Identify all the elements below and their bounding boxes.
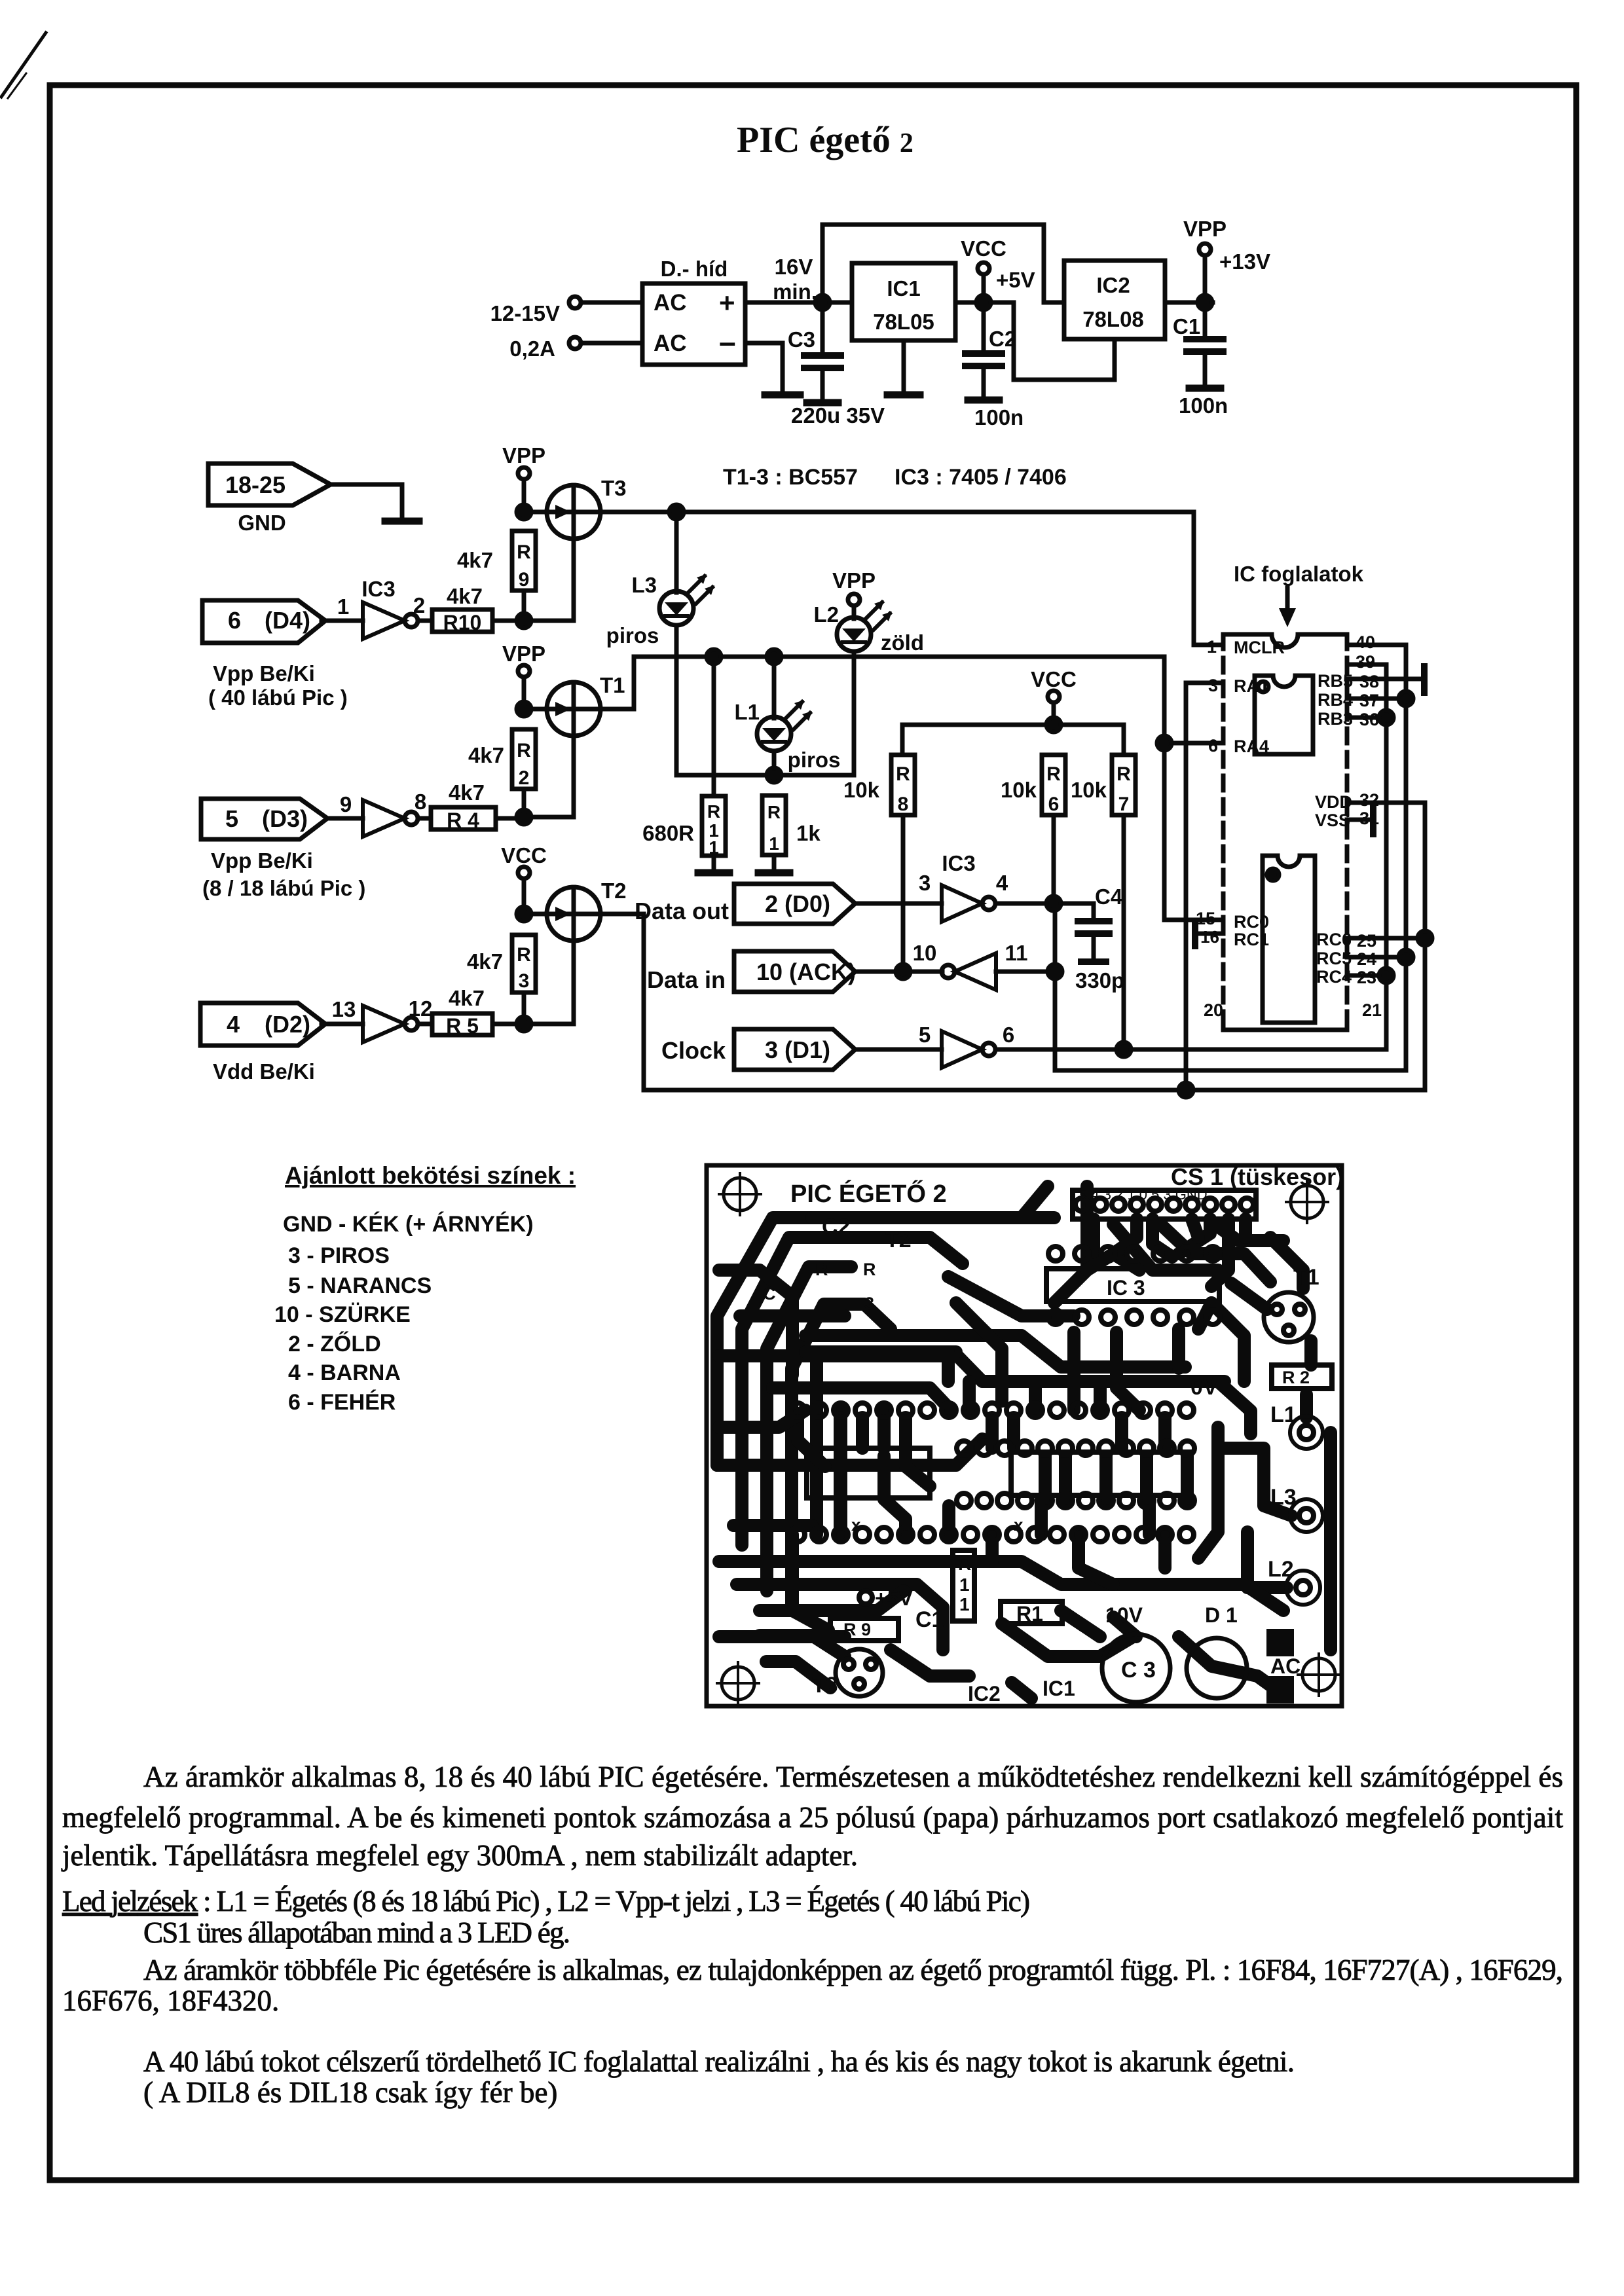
trace extra 28 (1029, 1381, 1042, 1410)
svg-text:36: 36 (1359, 710, 1379, 729)
inverter IC3 9-8 (363, 800, 405, 837)
svg-text:megfelelő programmal. A be és: megfelelő programmal. A be és kimeneti p… (62, 1801, 1563, 1834)
svg-text:10 (ACK): 10 (ACK) (756, 958, 856, 985)
wire pin36 RB3 (1347, 716, 1386, 720)
svg-text:25: 25 (1357, 931, 1376, 951)
trace dens 17 (1218, 1381, 1251, 1434)
svg-text:2 - ZŐLD: 2 - ZŐLD (288, 1332, 381, 1357)
svg-text:RA4: RA4 (1234, 737, 1269, 756)
svg-text:L3: L3 (1270, 1485, 1297, 1510)
RC1 terminator bar (1192, 922, 1198, 946)
svg-text:AC: AC (654, 290, 687, 316)
IC3 body (1046, 1269, 1219, 1302)
svg-text:VCC: VCC (501, 843, 547, 867)
wire RC4 pin23 (1347, 974, 1386, 978)
resistor R8 (891, 755, 915, 815)
trace bottom right (1179, 1637, 1274, 1688)
svg-text:IC3: IC3 (361, 577, 395, 601)
svg-text:32: 32 (1359, 790, 1379, 810)
svg-text:C1: C1 (1173, 314, 1200, 338)
trace extra 16 (1087, 1254, 1139, 1270)
svg-text:RB3: RB3 (1318, 709, 1353, 729)
svg-text:Vpp Be/Ki: Vpp Be/Ki (211, 848, 313, 873)
R11 footprint vertical (953, 1550, 974, 1621)
mounting crosshair top-left (719, 1173, 761, 1215)
node VCC rail junction (1046, 718, 1061, 732)
svg-text:13: 13 (332, 997, 356, 1021)
svg-text:(D4): (D4) (265, 607, 310, 634)
svg-text:Data out: Data out (635, 898, 729, 924)
LED L1 footprint (1290, 1416, 1323, 1449)
svg-text:Data in: Data in (647, 966, 726, 993)
IC2 78L08 box (1064, 261, 1165, 339)
svg-text:3: 3 (1208, 676, 1218, 695)
svg-text:R: R (1116, 763, 1131, 785)
connector Clock 3 (D1) (734, 1029, 855, 1070)
wire - output down (745, 343, 783, 393)
svg-text:8: 8 (415, 790, 426, 814)
wire RA1 column down to Vdd bus (1184, 683, 1189, 1090)
wire pin39 (1347, 663, 1386, 667)
resistor R4 (431, 807, 496, 829)
svg-text:–: – (719, 325, 736, 359)
28-pin pin1 dot (1267, 869, 1279, 881)
svg-text:( A DIL8 és DIL18 csak így fér: ( A DIL8 és DIL18 csak így fér be) (143, 2076, 557, 2109)
pcb labels (763, 1163, 1344, 1705)
wire IC2 out (1165, 301, 1213, 305)
trace extra 17 (956, 1303, 1002, 1401)
svg-text:8: 8 (898, 793, 909, 815)
node C3 junction (815, 295, 830, 310)
dil8 outline (807, 1448, 930, 1498)
trace extra 14 (1099, 1456, 1113, 1501)
svg-text:11: 11 (1005, 941, 1028, 965)
capacitor C2 (982, 309, 986, 352)
trace extra 9 (1158, 1535, 1172, 1568)
wire base T1 (524, 815, 574, 820)
trace extra 8 (1079, 1535, 1113, 1584)
trace dens 13 (1140, 1456, 1153, 1501)
svg-text:RC5: RC5 (1316, 949, 1352, 968)
VCC terminal (978, 263, 989, 274)
trace left bus 1 (717, 1186, 1048, 1465)
svg-text:RB5: RB5 (1318, 671, 1353, 691)
trace right edge down (1324, 1432, 1337, 1650)
svg-text:R: R (815, 1260, 828, 1279)
wire pin40 (1347, 643, 1406, 647)
svg-text:12-15V: 12-15V (490, 301, 560, 325)
svg-text:15: 15 (1196, 909, 1215, 928)
wire IC1 out (955, 301, 1014, 305)
trace right T1 1 (1231, 1283, 1267, 1309)
trace extra 4 (856, 1417, 869, 1448)
node R3/R5 junction (517, 1017, 531, 1031)
wire VDD bus vertical (1423, 803, 1428, 1090)
svg-text:Clock: Clock (661, 1037, 726, 1064)
mounting crosshair bottom-left (717, 1662, 759, 1704)
wire step to IC2 gnd pin (1014, 302, 1115, 380)
svg-text:4k7: 4k7 (447, 584, 483, 608)
svg-text:piros: piros (788, 748, 841, 772)
capacitor C1 (1203, 309, 1208, 337)
node T1 emitter junction (517, 702, 531, 716)
svg-text:R: R (707, 801, 720, 822)
trace bottom long (792, 1535, 828, 1630)
40-pin socket outline (1223, 634, 1347, 647)
svg-text:6: 6 (228, 607, 241, 634)
trace extra 11 (1158, 1417, 1172, 1448)
connector Data out 2 (D0) (734, 884, 855, 924)
svg-text:5: 5 (919, 1023, 931, 1047)
svg-text:7: 7 (1118, 793, 1130, 815)
node VPP out junction (1198, 295, 1212, 310)
svg-text:IC3: IC3 (942, 851, 975, 875)
node T2 emitter junction (517, 907, 531, 921)
trace extra 6 (942, 1506, 955, 1535)
svg-text:D.- híd: D.- híd (661, 257, 728, 281)
LED bottom rail (676, 773, 854, 778)
trace extra 22 (719, 1270, 792, 1375)
trace extra 15 (1211, 1303, 1244, 1381)
svg-text:9: 9 (519, 569, 530, 591)
svg-text:4k7: 4k7 (449, 780, 485, 805)
+5V pad (859, 1591, 872, 1604)
socket pad row C (957, 1493, 1194, 1508)
trace header loop (1054, 1186, 1087, 1303)
svg-text:L1: L1 (734, 700, 760, 724)
trace bottom bus 2 (737, 1584, 943, 1650)
IC foglalatok arrow (1285, 588, 1290, 618)
trace dens 11 (986, 1417, 999, 1448)
svg-text:10k: 10k (1001, 778, 1037, 802)
svg-text:R1: R1 (1016, 1602, 1043, 1626)
trace socket mid vertical 3 (1035, 1499, 1048, 1535)
ground bar minus (765, 392, 800, 399)
trace bottom bus 1 (719, 1561, 1283, 1611)
node R2/R4 junction (517, 810, 531, 824)
svg-text:(D3): (D3) (262, 805, 308, 832)
trace right T1 2 (1304, 1341, 1318, 1365)
svg-text:16: 16 (1200, 927, 1219, 947)
trace mid horiz 0V (719, 1356, 1225, 1381)
18-pin pin1 bubble (1258, 682, 1268, 692)
resistor R7 (1112, 755, 1135, 815)
transistor T3 footprint (836, 1649, 883, 1696)
svg-text:C4: C4 (1095, 884, 1123, 909)
svg-text:L2: L2 (1268, 1557, 1294, 1582)
svg-text:0,2A: 0,2A (509, 337, 555, 361)
trace mid cross (963, 1381, 976, 1410)
wire + output to IC1 (745, 301, 852, 305)
node R8 data-in junction (896, 964, 910, 979)
trace top header diag 2 (1159, 1223, 1270, 1282)
mounting crosshair bottom-right (1298, 1654, 1340, 1696)
data vertical to socket (1055, 645, 1406, 1070)
wire MCLR pin1 (1194, 512, 1223, 645)
svg-text:18-25: 18-25 (225, 471, 286, 498)
node R7 clock junction (1116, 1042, 1131, 1057)
node R9/R10 junction (517, 613, 531, 628)
connector 5 (D3) pentagon (201, 799, 327, 839)
wire pin38 RB5 (1347, 677, 1422, 682)
svg-text:min.: min. (773, 280, 817, 304)
svg-text:A 40 lábú tokot célszerű törde: A 40 lábú tokot célszerű tördelhető IC f… (143, 2045, 1295, 2078)
trace dens 8 (834, 1417, 847, 1535)
svg-text:10k: 10k (843, 778, 880, 802)
svg-text:R 9: R 9 (843, 1620, 871, 1639)
pin38 terminator bar (1421, 666, 1428, 693)
trace socket mid vertical 1 (877, 1410, 891, 1448)
connector Data in 10 (ACK) (734, 951, 855, 992)
svg-text:3: 3 (919, 871, 931, 895)
svg-text:IC3 : 7405 / 7406: IC3 : 7405 / 7406 (895, 465, 1067, 490)
svg-text:CS1 üres állapotában mind a 3: CS1 üres állapotában mind a 3 LED ég. (143, 1916, 570, 1949)
trace top mid diag (948, 1277, 1074, 1316)
svg-text:VCC: VCC (961, 236, 1006, 261)
svg-text:IC 3: IC 3 (1107, 1276, 1145, 1300)
trace extra 26 (1113, 1219, 1137, 1254)
svg-text:VDD: VDD (1315, 792, 1352, 812)
resistor R2 (512, 729, 536, 789)
svg-text:5: 5 (225, 805, 238, 832)
trace extra 10 (1115, 1417, 1128, 1448)
svg-text:C1: C1 (915, 1607, 944, 1632)
VSS terminator bar (1370, 808, 1376, 834)
resistor R3 (512, 935, 536, 993)
svg-text:MCLR: MCLR (1234, 638, 1285, 657)
socket pad row A (790, 1403, 1194, 1417)
wire base T2 (524, 1022, 574, 1027)
svg-text:2: 2 (519, 767, 530, 789)
connector 18-25 GND pentagon (208, 464, 331, 505)
trace ic3 to socket 2 (1116, 1332, 1139, 1410)
svg-text:1: 1 (337, 594, 349, 619)
trace dens 18 (766, 1662, 830, 1688)
wire (581, 341, 642, 346)
trace extra 2 (773, 1388, 951, 1410)
svg-text:VCC: VCC (1031, 667, 1077, 691)
svg-text:3: 3 (519, 970, 530, 992)
transistor T2 (547, 887, 600, 941)
svg-text:1: 1 (959, 1594, 970, 1614)
svg-text:GND: GND (238, 511, 286, 535)
svg-text:+5V: +5V (996, 268, 1035, 292)
VPP terminal (L2) (848, 594, 860, 606)
connector 6 (D4) pentagon (202, 600, 325, 643)
R2 footprint box (1272, 1365, 1332, 1389)
trace left horiz 1 (717, 1439, 982, 1465)
trace dens 21 (1198, 1303, 1211, 1329)
trace ic3 to socket 1 (1067, 1332, 1080, 1410)
svg-text:9: 9 (340, 792, 352, 816)
svg-text:jelentik. Tápellátásra megfele: jelentik. Tápellátásra megfelel egy 300m… (61, 1839, 858, 1872)
node L3 top junction (669, 505, 684, 519)
dil28 body outline (1011, 1452, 1190, 1495)
svg-text:3 - PIROS: 3 - PIROS (288, 1243, 390, 1268)
ground symbol (385, 518, 419, 525)
LED L2 (837, 617, 871, 651)
trace socket mid vertical 2 (834, 1410, 847, 1535)
wire (581, 301, 642, 305)
trace mid horiz 2 (805, 1336, 1185, 1367)
svg-text:R: R (517, 740, 531, 761)
svg-text:10k: 10k (1071, 778, 1107, 802)
IC3 pads bottom row (1048, 1310, 1220, 1324)
svg-text:1: 1 (959, 1575, 970, 1595)
svg-text:6 - FEHÉR: 6 - FEHÉR (288, 1390, 396, 1415)
wire T2 collector down to Vdd bus (644, 914, 1425, 1090)
socket pad row B (957, 1441, 1194, 1455)
trace dens 4 (1211, 1219, 1228, 1286)
svg-text:10: 10 (913, 941, 937, 965)
svg-text:10 - SZÜRKE: 10 - SZÜRKE (274, 1302, 411, 1327)
node RC5 junction (1399, 950, 1413, 964)
svg-text:4k7: 4k7 (468, 743, 504, 767)
svg-text:24: 24 (1357, 949, 1376, 969)
svg-text:20: 20 (1204, 1000, 1223, 1020)
wire RC1 stub (1195, 932, 1223, 936)
svg-text:RA1: RA1 (1234, 676, 1269, 696)
trace socket mid vertical 4 (1143, 1499, 1156, 1535)
svg-text:0V: 0V (1190, 1375, 1218, 1400)
svg-text:R: R (863, 1260, 876, 1279)
trace extra 7 (986, 1535, 999, 1561)
capacitor C3 (821, 309, 825, 354)
trace extra 19 (760, 1591, 904, 1611)
svg-text:220u 35V: 220u 35V (791, 403, 885, 428)
trace dens 20 (1012, 1683, 1031, 1698)
trace dens 16 (719, 1410, 805, 1427)
IC1 ground pin (902, 340, 906, 393)
pin header pads (1075, 1198, 1253, 1211)
svg-text:PIC ÉGETŐ 2: PIC ÉGETŐ 2 (790, 1179, 947, 1208)
svg-text:R: R (896, 763, 910, 785)
10k top rail (902, 725, 1124, 755)
trace extra 24 (1239, 1219, 1252, 1237)
svg-text:4k7: 4k7 (467, 949, 503, 974)
trace left bus 3 (767, 1267, 851, 1591)
transistor T3 (547, 485, 600, 539)
diode D1 footprint (1187, 1638, 1247, 1698)
IC1 78L05 box (852, 263, 955, 340)
trace extra 28 (1029, 1381, 1042, 1410)
svg-text:T3: T3 (601, 476, 627, 500)
bridge rectifier D.-hid (642, 283, 745, 365)
svg-text:C3: C3 (788, 327, 815, 352)
capacitor C3 footprint (1102, 1634, 1170, 1702)
wire rail column to RC0 (1164, 657, 1223, 920)
trace dens 6 (740, 1309, 845, 1322)
svg-text:L2: L2 (813, 602, 839, 627)
svg-text:C 3: C 3 (1121, 1658, 1156, 1683)
svg-text:VPP: VPP (502, 443, 545, 467)
trace right L1-L3 (1219, 1448, 1291, 1516)
svg-text:T1: T1 (1293, 1265, 1319, 1290)
VPP terminal (T1) (518, 665, 530, 677)
trace dens 12 (1059, 1456, 1072, 1501)
svg-text:T2: T2 (601, 879, 627, 903)
svg-text:VPP: VPP (1183, 217, 1227, 241)
scan artifact diagonal top-left (1, 33, 46, 97)
svg-text:IC2: IC2 (968, 1682, 1001, 1705)
wire RA1 pin (1186, 681, 1223, 685)
trace extra 1 (810, 1352, 823, 1535)
trace left bus 4 (792, 1304, 891, 1611)
svg-text:(8 / 18 lábú Pic ): (8 / 18 lábú Pic ) (202, 876, 365, 900)
transistor T1 footprint (1264, 1292, 1314, 1342)
svg-text:x: x (1014, 1515, 1024, 1535)
R1 footprint box (1001, 1601, 1062, 1624)
svg-text:31: 31 (1359, 809, 1379, 828)
LED L2 footprint (1286, 1571, 1320, 1605)
svg-text:R10: R10 (443, 611, 482, 634)
buffer IC3 3-4 (942, 885, 982, 922)
node pin4 junction (1046, 896, 1061, 911)
svg-text:37: 37 (1359, 691, 1379, 710)
svg-text:Az áramkör alkalmas 8, 18 és 4: Az áramkör alkalmas 8, 18 és 40 lábú PIC… (143, 1760, 1563, 1793)
svg-text:4 - BARNA: 4 - BARNA (288, 1360, 401, 1385)
svg-text:+13V: +13V (1219, 249, 1270, 274)
svg-text:3 (D1): 3 (D1) (765, 1036, 830, 1063)
svg-text:PIC égető 2: PIC égető 2 (737, 120, 913, 160)
18-pin socket overlay (1255, 676, 1313, 754)
trace right L column (1300, 1394, 1313, 1417)
trace bottom bus 3 (760, 1635, 845, 1656)
svg-text:Vdd Be/Ki: Vdd Be/Ki (213, 1059, 315, 1084)
pcb border (707, 1165, 1342, 1706)
svg-text:piros: piros (606, 623, 659, 647)
svg-text:IC2: IC2 (1096, 273, 1130, 297)
trace extra 21 (1198, 1427, 1218, 1558)
svg-text:4: 4 (227, 1011, 240, 1038)
svg-text:1k: 1k (796, 821, 821, 845)
svg-text:4: 4 (996, 871, 1008, 895)
trace dens 9 (884, 1456, 906, 1535)
svg-text:100n: 100n (974, 405, 1024, 429)
svg-text:VSS: VSS (1315, 811, 1350, 830)
trace extra 3 (798, 1417, 825, 1467)
trace dens 1 (1087, 1219, 1100, 1252)
wire to ground (331, 484, 402, 519)
node RA1 column junction (1179, 1083, 1193, 1097)
trace extra 13 (1039, 1456, 1052, 1501)
trace dens 10 (942, 1352, 955, 1381)
wire base T3 (524, 619, 574, 623)
svg-text:1: 1 (709, 837, 719, 858)
node VCC junction (976, 295, 991, 310)
pin header CS1 outline (1073, 1190, 1256, 1219)
svg-text:IC1: IC1 (887, 276, 920, 301)
trace bottom mid (1002, 1624, 1133, 1656)
inverter IC3 11-10 (facing left) (942, 965, 955, 978)
node RA4 junction (1157, 736, 1172, 750)
socket pad row D (790, 1527, 1194, 1542)
trace extra 18 (719, 1630, 845, 1643)
resistor R11 column (712, 657, 716, 796)
svg-text:6: 6 (1003, 1023, 1014, 1047)
trace dens 5 (1270, 1237, 1303, 1288)
svg-text:IC1: IC1 (1043, 1677, 1075, 1700)
transistor T1 (547, 682, 600, 736)
node RC4 junction (1379, 968, 1393, 983)
wire to inverter (322, 619, 363, 623)
svg-text:D 1: D 1 (1205, 1603, 1238, 1627)
resistor R9 (512, 531, 536, 591)
svg-text:R 5: R 5 (446, 1014, 479, 1038)
trace dens 14 (1181, 1456, 1194, 1501)
svg-text:12: 12 (409, 996, 433, 1021)
svg-text:10V: 10V (1105, 1603, 1143, 1627)
